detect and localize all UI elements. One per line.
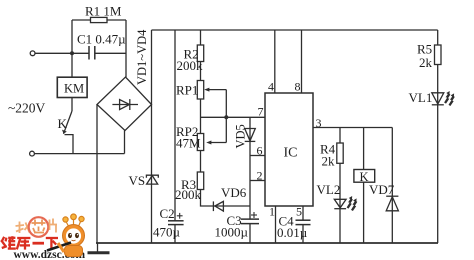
wire: VD7 branch xyxy=(391,128,393,244)
svg-text:5: 5 xyxy=(296,205,302,219)
svg-text:1000µ: 1000µ xyxy=(215,225,249,240)
svg-text:8: 8 xyxy=(295,80,301,94)
wire: K to ground xyxy=(363,182,365,243)
op-amp/timer IC box U1 xyxy=(265,93,313,206)
wire: R4 branch xyxy=(339,128,341,144)
wire: KM to switch xyxy=(71,98,73,112)
relay coil K xyxy=(354,170,375,183)
terminal T2 (~220V neutral) xyxy=(30,151,35,156)
potentiometer RP1 xyxy=(197,81,203,100)
wire: pin 4 from top rail xyxy=(274,30,276,93)
wire xyxy=(339,163,341,243)
svg-text:470µ: 470µ xyxy=(153,225,181,240)
svg-text:3: 3 xyxy=(316,116,322,130)
wire: pin 5 to C4 xyxy=(302,206,304,220)
RP1 wiper arrow xyxy=(208,89,227,91)
red text 一 xyxy=(33,242,45,245)
terminal T1 (~220V live) xyxy=(30,51,35,56)
wire: R3 bottom to VD6 xyxy=(201,190,251,207)
wire xyxy=(200,62,202,81)
IC pin number labels xyxy=(257,80,322,219)
svg-text:200k: 200k xyxy=(177,58,204,73)
resistor R4 xyxy=(337,143,343,163)
svg-text:VL2: VL2 xyxy=(317,182,341,197)
svg-text:R1 1M: R1 1M xyxy=(85,4,122,19)
svg-text:VD1~VD4: VD1~VD4 xyxy=(135,29,149,85)
svg-text:C2: C2 xyxy=(160,206,175,221)
svg-text:K: K xyxy=(360,170,369,184)
wire: top positive rail xyxy=(152,29,438,31)
wire: R5 branch from top rail corner xyxy=(437,30,439,45)
svg-text:~220V: ~220V xyxy=(8,101,46,116)
bridge inner diode symbol xyxy=(112,104,138,106)
node junction A xyxy=(70,51,74,55)
diode VD6 xyxy=(212,201,214,211)
ground symbol xyxy=(97,243,99,252)
svg-text:6: 6 xyxy=(257,144,263,158)
red text 库 xyxy=(17,238,31,250)
wire: loop right vertical to bridge top xyxy=(125,20,127,77)
capacitor C2 xyxy=(168,220,184,222)
bridge rectifier VD1~VD4 xyxy=(97,77,152,131)
wire: pin 6 stub xyxy=(250,155,265,157)
wire: bridge right vertex down to VS xyxy=(151,105,153,244)
LED VL2 xyxy=(334,199,346,208)
svg-text:IC: IC xyxy=(284,146,298,161)
svg-text:K: K xyxy=(58,116,68,131)
relay coil KM xyxy=(57,77,87,97)
wire xyxy=(200,99,202,134)
svg-text:KM: KM xyxy=(64,81,84,95)
svg-text:C1 0.47µ: C1 0.47µ xyxy=(77,32,126,47)
zener diode VS xyxy=(146,175,158,178)
mascot body xyxy=(65,246,83,257)
red text 维 xyxy=(1,236,16,249)
watermark logo xyxy=(1,214,85,260)
svg-text:47M: 47M xyxy=(176,136,201,151)
wire: bridge bottom vertex drop xyxy=(124,131,126,154)
resistor R2 xyxy=(197,45,203,62)
mascot head xyxy=(63,225,85,247)
svg-text:4: 4 xyxy=(268,80,274,94)
faint text 芯 xyxy=(32,220,46,233)
wire: bridge left vertex down to ground rail xyxy=(96,105,98,244)
wire: loop left vertical xyxy=(71,20,73,53)
faint text 找 xyxy=(16,222,30,234)
mascot stick xyxy=(47,243,71,251)
diode VD7 xyxy=(386,195,398,197)
svg-text:VS: VS xyxy=(129,173,146,188)
wire: timing chain from top rail xyxy=(200,30,202,45)
svg-text:7: 7 xyxy=(258,105,264,119)
LED VL1 xyxy=(432,93,444,104)
capacitor C4 xyxy=(296,219,311,221)
wire: relay K branch xyxy=(363,128,365,170)
wire: C2 branch from top rail xyxy=(174,30,176,221)
wire: junction down to KM xyxy=(71,53,73,77)
resistor R5 xyxy=(435,45,442,65)
resistor R3 xyxy=(197,172,203,190)
svg-text:1: 1 xyxy=(269,205,275,219)
wire xyxy=(437,65,439,244)
svg-text:VL1: VL1 xyxy=(409,90,433,105)
svg-text:2: 2 xyxy=(257,169,263,183)
LED VL2 light arrows xyxy=(347,198,353,208)
wire: pin 7 net xyxy=(201,116,266,118)
node: wiper junction xyxy=(224,115,228,119)
red text 下 xyxy=(46,238,58,250)
capacitor C1 xyxy=(72,52,89,54)
svg-text:VD6: VD6 xyxy=(221,185,247,200)
wire xyxy=(200,151,202,173)
wire: pin 8 from top rail xyxy=(301,30,303,93)
ground rail xyxy=(96,242,438,244)
wire: bottom AC wire xyxy=(34,153,124,155)
svg-text:VD5: VD5 xyxy=(234,124,248,148)
RP2 wiper arrow xyxy=(225,117,227,142)
svg-text:VD7: VD7 xyxy=(369,182,395,197)
wire: pin 1 to ground xyxy=(275,206,277,243)
wire: bridge right vertex up to top rail xyxy=(151,30,153,105)
LED VL1 light arrows xyxy=(444,93,450,103)
svg-text:RP1: RP1 xyxy=(176,83,198,98)
wire: loop top horizontal xyxy=(72,19,126,21)
resistor R1 xyxy=(91,17,108,22)
wire: pin 2 stub xyxy=(250,180,265,182)
diode VD5 xyxy=(249,117,251,219)
svg-text:2k: 2k xyxy=(419,55,433,70)
mascot eyes xyxy=(68,233,72,238)
potentiometer RP2 xyxy=(197,134,203,151)
svg-text:0.01µ: 0.01µ xyxy=(277,225,308,240)
wire: pin 3 output net xyxy=(313,127,392,129)
capacitor C3 xyxy=(241,218,259,220)
switch K xyxy=(64,111,73,134)
svg-text:2k: 2k xyxy=(322,154,336,169)
faint text 片 xyxy=(50,219,58,233)
wire: T1 to junction xyxy=(35,52,72,54)
mascot crown xyxy=(63,214,84,228)
circle around 芯 xyxy=(29,217,49,237)
svg-text:200k: 200k xyxy=(175,187,202,202)
